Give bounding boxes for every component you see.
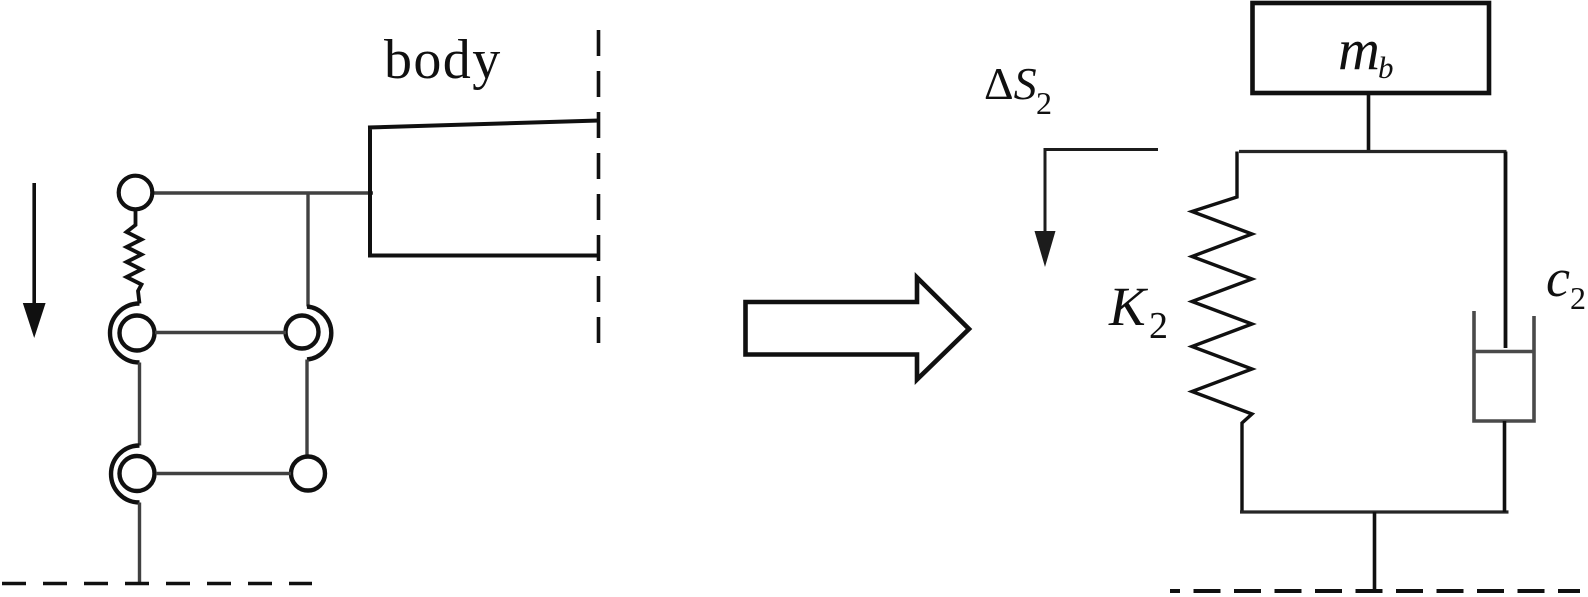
- down arrow (load direction, left figure): [23, 183, 46, 338]
- label mb: [1338, 17, 1394, 85]
- ground (left figure, dashed): [2, 582, 312, 586]
- svg-text:c: c: [1546, 248, 1570, 308]
- left middle pin joint: [120, 316, 155, 351]
- wire: left vertical link between left joints: [138, 363, 141, 446]
- wire: vertical link from bottom-left joint to ground: [138, 503, 141, 584]
- label dS2: [984, 58, 1052, 121]
- svg-text:ΔS: ΔS: [984, 58, 1037, 109]
- mass block mb: [1253, 3, 1490, 93]
- wire: damper cup to frame bottom: [1503, 421, 1507, 512]
- wire: top link from upper pin to body block: [150, 191, 373, 194]
- link arc wrapping left-middle joint: [110, 304, 140, 363]
- link arc wrapping right-middle joint: [307, 307, 331, 360]
- big hollow arrow (transformation): [746, 278, 970, 380]
- svg-text:b: b: [1378, 50, 1394, 85]
- body block (left figure): [368, 121, 599, 258]
- wire: frame bottom bar: [1240, 510, 1509, 513]
- svg-text:body: body: [384, 29, 502, 91]
- upper pin joint (circle on spring top): [119, 176, 153, 210]
- svg-text:2: 2: [1036, 85, 1052, 121]
- bottom left pin joint: [120, 456, 155, 491]
- dS2 displacement arrow (down): [1035, 150, 1159, 268]
- link arc wrapping bottom-left joint: [111, 446, 139, 503]
- damper cylinder cup: [1474, 311, 1534, 421]
- svg-text:2: 2: [1149, 305, 1168, 347]
- wire: right vertical link down to bottom-right joint: [305, 360, 308, 456]
- wire: frame to ground: [1373, 512, 1377, 591]
- svg-text:m: m: [1338, 17, 1380, 82]
- wire: vertical link tee down to right middle joint: [306, 193, 309, 307]
- spring (left figure, small zigzag): [127, 211, 142, 304]
- bottom right pin joint: [291, 457, 325, 491]
- wall (vertical dashed reference line): [597, 30, 601, 350]
- wire: mb to frame top: [1367, 93, 1371, 152]
- wire: frame top bar: [1239, 150, 1507, 153]
- svg-text:2: 2: [1570, 280, 1586, 316]
- damper rod c2: [1504, 152, 1508, 349]
- ground (right figure, dash-dot): [1170, 589, 1580, 593]
- wire: middle horizontal link between middle joints: [155, 331, 286, 334]
- svg-text:K: K: [1108, 276, 1149, 337]
- right middle pin joint: [286, 316, 319, 349]
- spring K2 (right figure): [1192, 152, 1252, 513]
- label K2: [1108, 276, 1168, 347]
- wire: bottom horizontal link between bottom joints: [156, 472, 291, 475]
- damper piston plate: [1474, 350, 1534, 354]
- label c2: [1546, 248, 1586, 316]
